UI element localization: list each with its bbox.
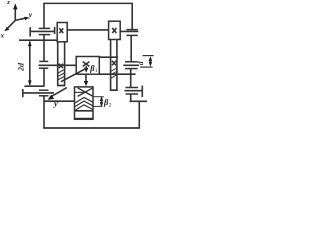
deflected axis diagonal to rotor cross — [61, 68, 86, 81]
bearing: bottom-left (inner axis lower) — [39, 90, 49, 96]
base line right segment — [130, 100, 148, 102]
fork legs of right gimbal — [111, 40, 117, 91]
cross in damper box — [78, 88, 93, 97]
wire: left stem between top and middle bearings — [43, 35, 45, 62]
wire: right stem from middle bearing to bottom bearing — [130, 69, 132, 88]
fork legs of left gimbal (double-line shaft) — [58, 42, 65, 86]
rotor cross in box F — [83, 62, 90, 67]
wire: right frame drop — [131, 3, 133, 29]
fork bottom closure (right) — [110, 89, 118, 91]
damper box D (hatched, bottom middle) — [75, 87, 94, 119]
wire: link between box M1 and box M2 — [67, 29, 108, 31]
svg-text:2d: 2d — [16, 62, 25, 72]
damper box bottom bar (thick) — [75, 118, 94, 120]
svg-text:2: 2 — [109, 103, 112, 109]
x mark in box M1 — [59, 28, 63, 33]
top frame line — [43, 2, 133, 4]
shaft: outer gimbal axis left segment — [30, 30, 54, 32]
dimension 2d — [16, 41, 31, 86]
shaft: inner axis right — [123, 64, 139, 66]
shelf line B under box M1 — [19, 39, 57, 41]
bearing: middle-left (inner gimbal axis) — [39, 61, 48, 68]
x mark on right fork — [112, 61, 116, 66]
end-bar bottom-left shaft — [22, 89, 24, 97]
shaft: bottom-left with end-bar — [23, 92, 54, 94]
hatch on right fork — [111, 68, 117, 78]
bearing: bottom-right (inner axis lower) — [126, 88, 139, 95]
shelf line under box F extending right — [99, 73, 135, 75]
fork bottom closure (left) — [57, 85, 65, 87]
svg-text:y′: y′ — [53, 98, 60, 108]
rotor axis arrow (down) in box F — [84, 66, 88, 73]
gamma-prime arrow onto bottom-left bearing — [48, 88, 67, 100]
bearing: top-left (outer gimbal axis) — [39, 28, 51, 34]
hatch on left fork — [58, 69, 65, 80]
coordinate axes x y z — [0, 0, 33, 39]
motor/sensor box M1 (top left) — [57, 23, 67, 42]
svg-text:x: x — [0, 31, 5, 39]
bearing: top-right (outer gimbal axis) — [126, 30, 137, 36]
wire: left stem from middle bearing down to line A — [43, 68, 45, 86]
wire: left frame drop — [43, 3, 45, 28]
pedestal frame: left side / stem continuation — [43, 96, 45, 129]
end-bar bottom-right shaft — [141, 86, 143, 97]
line A (left mount shelf) — [24, 85, 44, 87]
pedestal frame: right side — [138, 101, 140, 128]
wire: right stem between top and middle bearings — [130, 35, 132, 61]
shaft: inner axis left, through fork to frame box F — [39, 64, 77, 66]
separator line in damper box — [75, 110, 94, 112]
interior line into cross — [75, 91, 85, 93]
chevron spring hatching in damper box — [75, 98, 93, 111]
shaft: outer gimbal axis right segment — [120, 30, 138, 32]
svg-text:1: 1 — [95, 68, 98, 74]
wire: stem below bottom-right bearing — [130, 94, 132, 101]
shaft: bottom-right with end-bar — [125, 90, 143, 92]
pedestal frame: bottom — [43, 127, 140, 129]
end-bar: left shaft end — [29, 27, 31, 36]
dimension d — [136, 56, 153, 68]
inner frame box F (with rotor cross) — [76, 57, 99, 75]
svg-text:z: z — [6, 0, 10, 6]
motor/sensor box M2 (top right) — [109, 21, 121, 39]
rotor shaft arrow from box F down to damper box — [84, 74, 88, 86]
x mark on left fork — [59, 64, 63, 68]
beta2 dimension arrows — [93, 97, 104, 107]
bearing: middle-right (inner gimbal axis) — [125, 62, 138, 69]
end-bar: shaft end near left box — [54, 27, 56, 34]
base line left segment — [44, 100, 75, 102]
wire: connector from box F to right fork — [99, 56, 118, 58]
x mark in box M2 — [112, 28, 116, 33]
svg-text:y: y — [28, 10, 33, 19]
svg-text:d: d — [136, 61, 145, 65]
